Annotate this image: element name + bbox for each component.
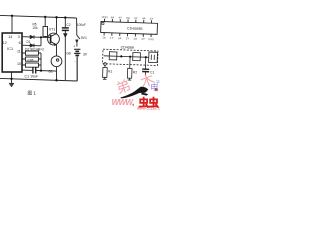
- svg-text:VT1: VT1: [49, 28, 55, 32]
- svg-text:100uF: 100uF: [77, 23, 86, 27]
- svg-text:3Y: 3Y: [141, 37, 145, 41]
- svg-text:-: -: [74, 59, 76, 63]
- svg-text:CD4069B: CD4069B: [127, 26, 143, 31]
- svg-text:IC1: IC1: [7, 47, 13, 51]
- svg-text:,: ,: [132, 98, 134, 107]
- svg-text:C2: C2: [66, 23, 70, 27]
- svg-text:D2 9014B×2: D2 9014B×2: [25, 48, 44, 52]
- svg-text:C1 10uF: C1 10uF: [25, 75, 40, 79]
- svg-text:子: 子: [156, 80, 161, 86]
- svg-text:6Y: 6Y: [119, 16, 123, 20]
- svg-text:R1: R1: [108, 69, 113, 73]
- svg-text:WWW: WWW: [112, 98, 135, 107]
- svg-text:2Y: 2Y: [126, 36, 130, 40]
- svg-text:VSS: VSS: [148, 37, 154, 41]
- svg-text:VDD: VDD: [102, 15, 108, 19]
- svg-text:1Y: 1Y: [110, 36, 114, 40]
- svg-text:10k: 10k: [33, 26, 39, 30]
- svg-text:CD4069: CD4069: [121, 45, 134, 49]
- svg-text:3: 3: [18, 35, 20, 39]
- svg-text:R2: R2: [133, 70, 138, 74]
- svg-text:14: 14: [8, 35, 12, 39]
- svg-text:6A: 6A: [111, 15, 115, 19]
- svg-text:5Y: 5Y: [134, 16, 138, 20]
- svg-text:B1: B1: [49, 70, 53, 74]
- svg-text:图 1: 图 1: [28, 91, 37, 97]
- svg-text:11: 11: [17, 50, 21, 54]
- svg-text:3V: 3V: [83, 52, 88, 56]
- svg-text:WWW.CCZDZ.COM: WWW.CCZDZ.COM: [137, 107, 160, 110]
- svg-text:C1B: C1B: [28, 58, 34, 62]
- svg-text:1A: 1A: [102, 36, 106, 40]
- svg-text:GB: GB: [66, 52, 71, 56]
- svg-text:10: 10: [17, 62, 21, 66]
- svg-text:3A: 3A: [133, 37, 137, 41]
- svg-text:12: 12: [3, 41, 7, 45]
- svg-text:D1: D1: [27, 40, 31, 44]
- svg-text:4Y: 4Y: [150, 17, 154, 21]
- svg-text:+: +: [73, 45, 75, 49]
- svg-text:6: 6: [19, 41, 21, 45]
- svg-text:2A: 2A: [118, 36, 122, 40]
- svg-text:4A: 4A: [142, 16, 146, 20]
- svg-text:5A: 5A: [126, 16, 130, 20]
- svg-text:9V1: 9V1: [81, 36, 87, 40]
